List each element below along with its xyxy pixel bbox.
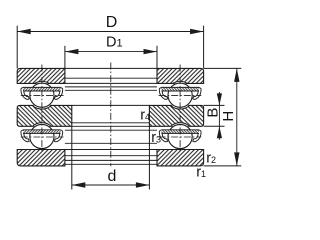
svg-text:d: d bbox=[108, 168, 117, 185]
bore horizontal lines seen through the hole bbox=[65, 67, 157, 69]
lower row horizontal centerline right bbox=[159, 136, 202, 138]
svg-text:D1: D1 bbox=[106, 34, 123, 50]
upper left cage section bbox=[21, 87, 29, 99]
top housing washer left section bbox=[17, 68, 65, 83]
upper right ball bbox=[168, 83, 192, 107]
dimension D1 line with arrows bbox=[65, 51, 157, 53]
right ball column centerline bbox=[179, 65, 181, 153]
bottom housing washer left section bbox=[17, 150, 65, 166]
center shaft washer left section bbox=[17, 105, 72, 126]
lower left ball bbox=[30, 124, 54, 148]
lower left cage section bbox=[21, 130, 29, 142]
dimension B line with outside arrows bbox=[218, 92, 220, 140]
bottom housing washer right section bbox=[157, 150, 204, 166]
lower row horizontal centerline left bbox=[21, 136, 64, 138]
dimension H line with arrows bbox=[236, 68, 238, 165]
svg-text:D: D bbox=[106, 14, 118, 31]
dimension d extension lines bbox=[71, 126, 73, 189]
dimension D extension lines bbox=[16, 26, 18, 69]
dimension B extension lines bbox=[204, 104, 225, 106]
top housing washer right section bbox=[157, 68, 204, 83]
center shaft washer right section bbox=[149, 105, 203, 126]
lower right cage section bbox=[159, 130, 167, 142]
dimension d line with arrows bbox=[72, 184, 150, 186]
svg-text:B: B bbox=[204, 108, 221, 118]
main vertical centerline (bearing axis) bbox=[110, 63, 112, 167]
upper left ball bbox=[30, 83, 54, 107]
left ball column centerline bbox=[41, 65, 43, 153]
lower right ball bbox=[168, 124, 192, 148]
upper row horizontal centerline left bbox=[21, 94, 64, 96]
svg-text:H: H bbox=[220, 111, 237, 122]
upper right cage section bbox=[159, 87, 167, 99]
dimension H extension lines bbox=[204, 67, 242, 69]
cage lines across bore bbox=[65, 86, 157, 88]
upper row horizontal centerline right bbox=[159, 94, 202, 96]
dimension D1 extension lines bbox=[64, 46, 66, 69]
dimension D line with arrows bbox=[17, 31, 203, 33]
